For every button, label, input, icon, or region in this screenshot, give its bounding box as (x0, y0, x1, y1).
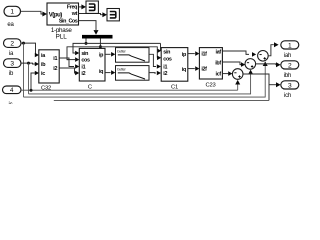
svg-text:butter: butter (117, 67, 126, 72)
svg-text:i2: i2 (53, 66, 57, 72)
svg-text:3: 3 (288, 82, 292, 89)
svg-text:iq: iq (182, 67, 186, 73)
svg-text:i1f: i1f (201, 52, 207, 58)
svg-text:butter: butter (117, 49, 126, 54)
svg-text:C: C (88, 84, 92, 90)
svg-text:cos: cos (163, 57, 172, 63)
svg-text:2: 2 (10, 40, 14, 47)
svg-text:1: 1 (288, 42, 292, 49)
svg-text:ibh: ibh (284, 73, 291, 79)
svg-text:1: 1 (10, 9, 14, 16)
svg-text:iq: iq (99, 69, 103, 75)
svg-text:ic: ic (9, 102, 13, 104)
svg-text:i2: i2 (163, 71, 167, 77)
svg-text:icf: icf (216, 72, 222, 78)
svg-text:ich: ich (284, 93, 291, 99)
svg-text:iah: iah (284, 53, 291, 59)
svg-text:ic: ic (41, 71, 45, 77)
svg-text:2: 2 (288, 62, 292, 69)
svg-text:sin: sin (81, 51, 88, 57)
svg-text:sin: sin (163, 50, 170, 56)
svg-text:ibf: ibf (215, 61, 221, 67)
svg-text:ea: ea (7, 22, 14, 28)
svg-text:Freq: Freq (67, 4, 77, 10)
svg-text:PLL: PLL (56, 34, 68, 41)
svg-text:wt: wt (71, 11, 78, 17)
svg-text:cos: cos (81, 58, 90, 64)
svg-text:3: 3 (10, 60, 14, 67)
svg-text:C23: C23 (205, 82, 215, 88)
svg-text:i2: i2 (81, 71, 85, 77)
svg-text:C32: C32 (41, 85, 51, 91)
svg-text:i1: i1 (163, 65, 167, 71)
svg-text:C1: C1 (171, 84, 178, 90)
svg-text:4: 4 (10, 87, 14, 94)
svg-text:i1: i1 (81, 64, 85, 70)
svg-text:Sin_Cos: Sin_Cos (59, 18, 78, 24)
svg-text:i2f: i2f (201, 67, 207, 73)
svg-text:iaf: iaf (216, 49, 222, 55)
svg-text:i1: i1 (53, 56, 57, 62)
